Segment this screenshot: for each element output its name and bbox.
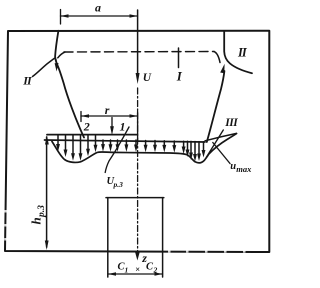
foundation rectangle right side <box>162 198 164 277</box>
zone II boundary right vertical <box>224 31 252 73</box>
dashed soil top line <box>64 51 214 54</box>
label u_max with leader <box>213 143 230 164</box>
svg-text:1: 1 <box>125 265 129 274</box>
dimension a arrowheads <box>61 14 138 18</box>
dimension a line <box>61 10 138 25</box>
axis z arrowhead <box>135 253 139 261</box>
svg-text:I: I <box>176 69 183 84</box>
funnel left edge curve <box>55 31 84 138</box>
svg-text:U: U <box>143 72 152 84</box>
tick for label I <box>178 48 180 68</box>
axis centerline dash-dot <box>137 88 139 252</box>
label h_p.3 rotated <box>29 205 47 225</box>
small down arrow left <box>55 60 57 65</box>
svg-text:III: III <box>224 117 238 129</box>
label U_p.3 with leader <box>105 127 129 173</box>
dashed line right elbow <box>214 52 220 63</box>
axis solid tick through r zone <box>137 112 139 141</box>
wing top line <box>205 133 237 140</box>
svg-text:2: 2 <box>83 120 90 134</box>
svg-text:a: a <box>95 1 101 15</box>
border frame of block <box>5 31 269 252</box>
foundation rectangle top edge <box>106 197 164 199</box>
svg-text:r: r <box>105 103 110 117</box>
C1 x C2 dimension line <box>108 273 163 275</box>
baseline L1 <box>47 134 137 136</box>
funnel right edge curve with up arrow <box>207 71 225 142</box>
svg-text:1: 1 <box>120 120 126 134</box>
settled surface line L2 <box>45 140 206 142</box>
svg-text:2: 2 <box>153 265 158 274</box>
svg-text:p.3: p.3 <box>113 180 124 189</box>
zone 1/2 divider down arrow <box>111 118 113 130</box>
svg-text:h: h <box>29 217 44 224</box>
broken bottom border effect <box>4 210 245 253</box>
svg-text:p.3: p.3 <box>37 205 47 218</box>
r dimension <box>81 112 138 122</box>
dashed line left elbow <box>58 52 65 58</box>
hatch arrowheads <box>56 144 205 162</box>
svg-text:×: × <box>135 264 140 274</box>
zone II leader left <box>33 58 56 77</box>
h_p.3 dimension line <box>46 137 48 247</box>
hatch arrows of settlement diagram <box>58 135 204 158</box>
axis U arrowhead <box>136 73 140 84</box>
axis U vertical solid <box>137 10 139 76</box>
svg-text:max: max <box>236 164 252 174</box>
settlement envelope <box>52 134 237 163</box>
foundation rectangle left side <box>107 198 109 277</box>
